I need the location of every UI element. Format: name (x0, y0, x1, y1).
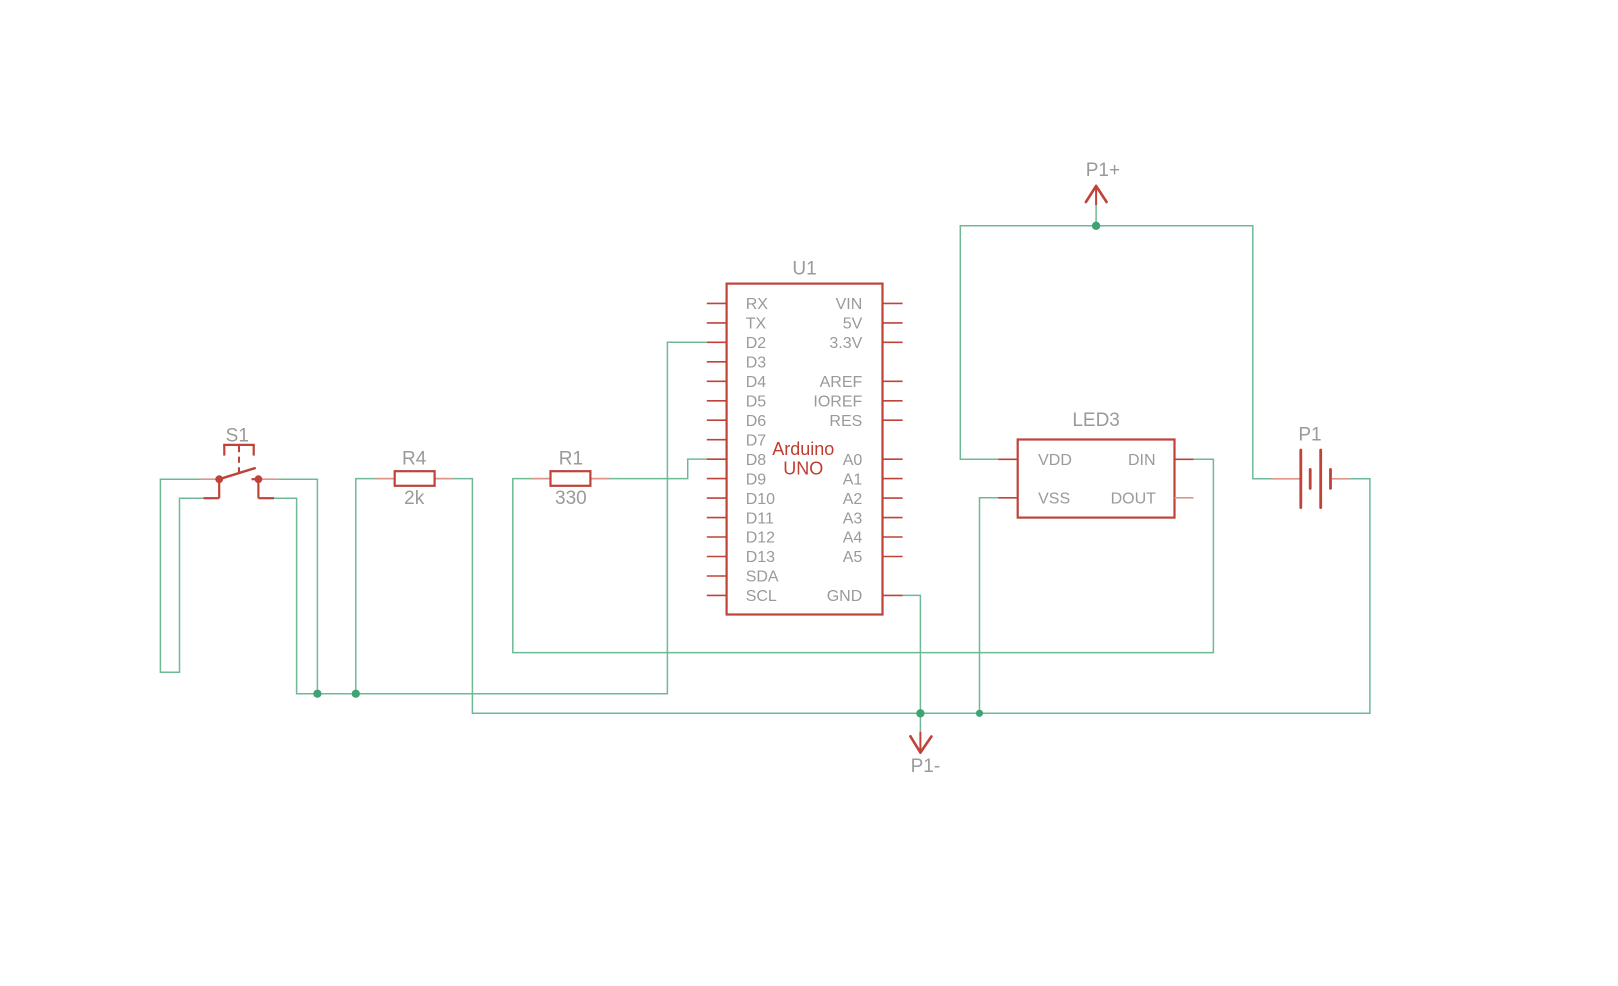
junction: GND bus dot at LED3 VSS (976, 710, 983, 717)
junction: button net dot 2 (352, 690, 360, 698)
svg-text:D13: D13 (746, 549, 775, 566)
svg-text:R4: R4 (402, 449, 427, 470)
svg-text:U1: U1 (792, 259, 816, 280)
svg-text:2k: 2k (404, 488, 425, 509)
pin D9 stub (707, 478, 727, 480)
wire: R4 left pin down to button net bus (356, 479, 375, 694)
svg-text:D11: D11 (746, 510, 774, 527)
svg-text:A0: A0 (843, 452, 863, 469)
power symbol P1- (net P1-) (910, 732, 940, 777)
junction: button net dot 1 (313, 690, 321, 698)
pin IOREF stub (883, 400, 903, 402)
wire: R1 right pin to Arduino D8 (604, 459, 707, 479)
svg-text:A1: A1 (843, 471, 863, 488)
svg-text:D8: D8 (746, 452, 767, 469)
svg-text:VIN: VIN (836, 296, 863, 313)
switch S1 (pushbutton) (200, 426, 278, 499)
wire: P1+ symbol stem (1095, 205, 1097, 226)
svg-text:D7: D7 (746, 432, 767, 449)
svg-text:R1: R1 (559, 449, 583, 470)
svg-text:VDD: VDD (1038, 452, 1072, 469)
svg-text:AREF: AREF (820, 374, 863, 391)
pin SDA stub (707, 575, 727, 577)
svg-text:SDA: SDA (746, 569, 779, 586)
pin D6 stub (707, 419, 727, 421)
pin D11 stub (707, 517, 727, 519)
wire: S1 pin2b / button net bus to Arduino D2 (274, 342, 707, 693)
pin A1 stub (883, 478, 903, 480)
pin A5 stub (883, 556, 903, 558)
pin D12 stub (707, 536, 727, 538)
svg-text:VSS: VSS (1038, 491, 1070, 508)
svg-text:DOUT: DOUT (1111, 491, 1157, 508)
pin A2 stub (883, 497, 903, 499)
pin DOUT stub (unconnected) (1175, 497, 1194, 499)
svg-text:SCL: SCL (746, 588, 777, 605)
LED3 NeoPixel (998, 410, 1193, 517)
pin VSS stub (998, 497, 1018, 499)
pin RES stub (883, 419, 903, 421)
pin D5 stub (707, 400, 727, 402)
wire: S1 left pins loop (pin1a to pin1b) (160, 479, 203, 672)
wire: P1- symbol stem (919, 713, 921, 731)
svg-text:5V: 5V (843, 316, 863, 333)
svg-text:P1: P1 (1298, 425, 1321, 446)
svg-text:D12: D12 (746, 530, 775, 547)
pin VDD stub (998, 458, 1018, 460)
svg-text:A2: A2 (843, 491, 863, 508)
pin D8 stub (707, 458, 727, 460)
svg-text:RX: RX (746, 296, 769, 313)
pin A3 stub (883, 517, 903, 519)
svg-text:Arduino: Arduino (772, 439, 834, 459)
svg-text:D6: D6 (746, 413, 767, 430)
pin 5V stub (883, 322, 903, 324)
pin 3.3V stub (883, 341, 903, 343)
svg-text:P1+: P1+ (1086, 160, 1120, 181)
svg-text:D5: D5 (746, 394, 767, 411)
svg-text:D10: D10 (746, 491, 775, 508)
svg-text:TX: TX (746, 316, 767, 333)
pin GND stub (883, 594, 903, 596)
wire: Arduino GND pin down to GND bus (903, 595, 921, 713)
pin AREF stub (883, 380, 903, 382)
svg-text:D3: D3 (746, 355, 767, 372)
resistor R1 330 (531, 449, 610, 510)
IC U1 Arduino UNO (707, 259, 903, 615)
pin A0 stub (883, 458, 903, 460)
svg-text:D2: D2 (746, 335, 767, 352)
pin RX stub (707, 302, 727, 304)
resistor R4 2k (375, 449, 453, 510)
svg-text:GND: GND (827, 588, 863, 605)
svg-text:330: 330 (555, 488, 587, 509)
junction: GND bus dot at P1- (916, 709, 924, 717)
pin D7 stub (707, 439, 727, 441)
svg-text:D4: D4 (746, 374, 767, 391)
pin D4 stub (707, 380, 727, 382)
power symbol P1+ (net P1+) (1086, 160, 1120, 205)
junction: P1+ bus dot (1092, 222, 1100, 230)
svg-text:S1: S1 (226, 426, 249, 447)
pin D2 stub (707, 341, 727, 343)
svg-text:3.3V: 3.3V (829, 335, 862, 352)
svg-text:A3: A3 (843, 510, 863, 527)
wire: R1 left pin to LED3 DIN (513, 459, 1214, 652)
wire: LED3 VSS down to GND bus (980, 498, 999, 714)
pin VIN stub (883, 302, 903, 304)
svg-text:RES: RES (829, 413, 862, 430)
svg-text:A4: A4 (843, 530, 863, 547)
pin D10 stub (707, 497, 727, 499)
pin SCL stub (707, 594, 727, 596)
pin D3 stub (707, 361, 727, 363)
wire: LED3 VDD up to P1+ bus and down to battery positive (960, 226, 1272, 479)
pin A4 stub (883, 536, 903, 538)
pin D13 stub (707, 556, 727, 558)
wire: R4 right pin to GND bus to battery negative (453, 479, 1370, 714)
wire: S1 pin2a down to button net bus (278, 479, 318, 694)
svg-text:P1-: P1- (911, 756, 941, 777)
svg-text:A5: A5 (843, 549, 863, 566)
svg-text:LED3: LED3 (1072, 410, 1120, 431)
pin TX stub (707, 322, 727, 324)
svg-text:D9: D9 (746, 471, 767, 488)
svg-text:DIN: DIN (1128, 452, 1156, 469)
svg-text:UNO: UNO (783, 459, 823, 479)
svg-text:IOREF: IOREF (813, 394, 862, 411)
battery P1 (1272, 425, 1349, 508)
pin DIN stub (1175, 458, 1194, 460)
